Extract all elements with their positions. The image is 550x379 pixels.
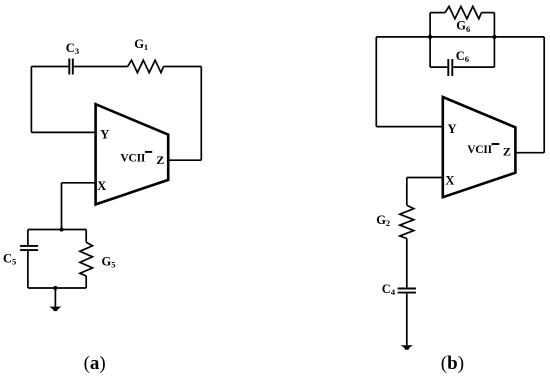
wire to Y (b) bbox=[376, 126, 443, 128]
node right junction (b) bbox=[492, 35, 496, 39]
capacitor C5 top plate bbox=[20, 245, 38, 247]
wire left vertical (a) bbox=[30, 67, 32, 133]
resistor G6 bbox=[445, 6, 481, 18]
svg-text:G2: G2 bbox=[376, 213, 390, 228]
capacitor C6 right plate bbox=[451, 59, 453, 76]
capacitor C3 left plate bbox=[68, 59, 70, 75]
svg-text:C5: C5 bbox=[3, 252, 16, 267]
wire X horizontal (a) bbox=[62, 182, 96, 184]
wire C3 to G1 bbox=[74, 66, 128, 68]
wire G2 to C4 bbox=[406, 239, 408, 288]
svg-text:C4: C4 bbox=[382, 282, 396, 297]
svg-text:(a): (a) bbox=[84, 353, 106, 374]
svg-text:VCII: VCII bbox=[120, 153, 145, 165]
wire top rail left segment (b) bbox=[430, 12, 445, 14]
svg-text:G1: G1 bbox=[134, 37, 148, 52]
wire parallel box right side (b) bbox=[493, 13, 495, 68]
ground (a) bbox=[49, 307, 61, 312]
VCII minus sign (a) bbox=[145, 151, 152, 153]
node left junction (b) bbox=[428, 35, 432, 39]
wire G5 bottom lead bbox=[85, 276, 87, 288]
svg-text:X: X bbox=[97, 179, 106, 193]
wire C4 to ground bbox=[406, 294, 408, 346]
node ground junction (a) bbox=[53, 286, 57, 290]
wire G1 to right corner (a) bbox=[164, 66, 202, 68]
svg-text:(b): (b) bbox=[441, 353, 464, 374]
svg-text:VCII: VCII bbox=[467, 144, 492, 156]
wire C6 right lead bbox=[453, 66, 494, 68]
wire X horizontal (b) bbox=[407, 177, 443, 179]
svg-text:X: X bbox=[445, 174, 454, 188]
wire middle rail (b) bbox=[376, 36, 544, 38]
node X junction (a) bbox=[59, 227, 63, 231]
svg-text:Y: Y bbox=[100, 128, 109, 142]
svg-text:C6: C6 bbox=[456, 49, 469, 64]
wire X drop (a) bbox=[61, 183, 63, 230]
svg-text:G6: G6 bbox=[456, 19, 470, 34]
wire ground stem (a) bbox=[54, 288, 56, 307]
op-amp/VCII block U1 (a) bbox=[96, 104, 169, 204]
wire parallel top rail (a) bbox=[28, 229, 86, 231]
capacitor C4 top plate bbox=[398, 288, 416, 290]
wire right vertical (b) bbox=[543, 37, 545, 153]
svg-text:Z: Z bbox=[503, 145, 511, 159]
wire right vertical (a) bbox=[200, 67, 202, 161]
wire parallel box left side (b) bbox=[429, 13, 431, 68]
wire Z to right vertical (b) bbox=[515, 152, 544, 154]
wire X drop (b) bbox=[406, 178, 408, 206]
resistor G1 bbox=[128, 60, 164, 72]
wire to Y (a) bbox=[31, 131, 95, 133]
op-amp/VCII block U2 (b) bbox=[443, 97, 516, 197]
capacitor C4 bottom plate bbox=[398, 292, 416, 294]
wire parallel bottom rail (a) bbox=[28, 287, 86, 289]
capacitor C6 left plate bbox=[447, 59, 449, 76]
wire C6 left lead bbox=[430, 66, 447, 68]
capacitor C3 right plate bbox=[72, 59, 74, 75]
resistor G5 bbox=[80, 242, 93, 276]
wire Z to right vertical (a) bbox=[168, 159, 201, 161]
wire C5 bottom lead bbox=[27, 251, 29, 288]
wire left vertical (b) bbox=[375, 37, 377, 127]
wire top rail right segment (b) bbox=[482, 12, 495, 14]
capacitor C5 bottom plate bbox=[20, 249, 38, 251]
svg-text:C3: C3 bbox=[66, 41, 79, 56]
svg-text:Y: Y bbox=[448, 122, 457, 136]
resistor G2 bbox=[400, 205, 414, 238]
svg-text:G5: G5 bbox=[102, 254, 116, 269]
wire G5 top lead bbox=[85, 230, 87, 243]
VCII minus sign (b) bbox=[492, 143, 500, 145]
svg-text:Z: Z bbox=[156, 153, 164, 167]
ground (b) bbox=[401, 345, 413, 350]
wire C5 top lead bbox=[27, 230, 29, 246]
wire top rail left segment (a) bbox=[31, 66, 68, 68]
